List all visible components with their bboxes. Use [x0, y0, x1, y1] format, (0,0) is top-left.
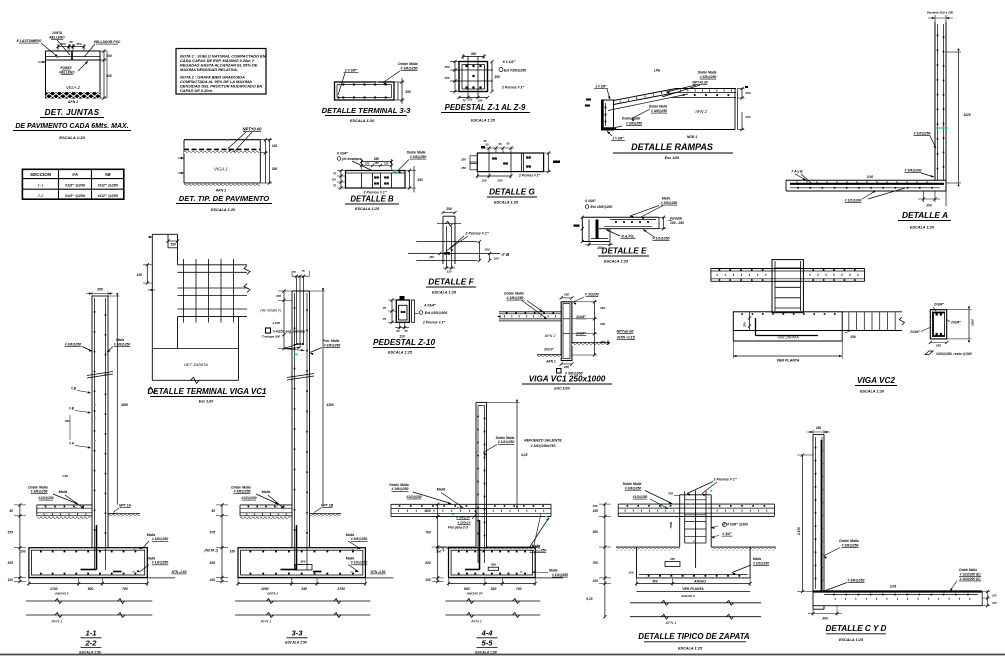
svg-text:NPT 1A: NPT 1A [119, 503, 132, 507]
detail DET. JUNTAS: top small dimensions [56, 40, 85, 51]
svg-text:Malla: Malla [147, 533, 156, 537]
rampas: top slab band [671, 89, 736, 98]
svg-text:Doble Malla: Doble Malla [389, 483, 409, 487]
pedestal Z-1: top dimension 350 [461, 52, 485, 59]
section 1-1: wall break mark [87, 372, 113, 379]
viga VC2: crossing beam [711, 269, 865, 282]
svg-text:DET. JUNTAS: DET. JUNTAS [45, 108, 100, 117]
detalle E: top-left bar texts [584, 199, 612, 209]
svg-text:750: 750 [668, 491, 673, 495]
svg-text:250: 250 [467, 98, 473, 102]
svg-text:# 1/2@250: # 1/2@250 [152, 561, 169, 565]
svg-text:100: 100 [593, 579, 599, 583]
svg-text:Malla: Malla [753, 557, 761, 561]
detalle A: bottom mesh leader [844, 188, 905, 203]
viga VC2: title [855, 376, 897, 394]
svg-text:700: 700 [425, 530, 431, 534]
svg-text:150: 150 [365, 162, 370, 166]
svg-text:# 3/4″: # 3/4″ [722, 532, 732, 536]
svg-text:250: 250 [669, 557, 675, 561]
svg-text:150: 150 [592, 504, 597, 508]
svg-text:NTN -2.50: NTN -2.50 [371, 570, 386, 574]
svg-text:AFN 2: AFN 2 [694, 109, 708, 114]
viga VC2 section: bottom dim and legend [925, 341, 972, 356]
rampas: body labels [687, 109, 708, 139]
viga VC1: bottom dim and legend [557, 362, 583, 375]
section 1-1: right height dimension 4300 [108, 293, 128, 504]
svg-text:250: 250 [563, 365, 569, 369]
svg-text:300: 300 [593, 530, 599, 534]
svg-text:4 #3/4″: 4 #3/4″ [584, 199, 596, 203]
svg-text:1,50: 1,50 [62, 474, 68, 478]
svg-text:AFN 1: AFN 1 [215, 189, 226, 193]
svg-text:200: 200 [925, 204, 932, 208]
svg-text:150: 150 [461, 158, 466, 162]
detalle E: bottom leader NAPE [606, 230, 636, 239]
section 1-1: wall stem [92, 296, 108, 548]
svg-text:100: 100 [210, 578, 216, 582]
svg-text:NTN -0.15: NTN -0.15 [617, 336, 635, 340]
svg-text:Malla: Malla [262, 490, 271, 494]
section 4-4: left slab leaders [389, 483, 463, 508]
svg-text:DETALLE C Y D: DETALLE C Y D [826, 624, 887, 633]
svg-text:250: 250 [445, 207, 452, 211]
svg-text:RELLENO: RELLENO [59, 71, 75, 75]
svg-text:SELLADOR PVC: SELLADOR PVC [94, 40, 121, 44]
detalle F: left small label [429, 252, 442, 259]
rampas: ramp slab slants [608, 89, 688, 111]
svg-text:4300: 4300 [120, 403, 128, 407]
section 4-4: ground stipple [436, 547, 540, 554]
rampas: mid mesh leader [631, 105, 667, 122]
svg-text:AFN 2: AFN 2 [544, 334, 557, 338]
section 4-4: projecting reinforcement note [524, 438, 562, 448]
detalle C y D: wall mesh leader [824, 539, 859, 559]
detalle C y D: top dimension 250 [807, 426, 830, 435]
svg-text:75: 75 [333, 184, 336, 188]
viga VC1: top dimension [560, 293, 574, 300]
detalle G: right dimension [544, 151, 560, 173]
svg-text:#1/2@250: #1/2@250 [406, 495, 421, 499]
svg-text:Doble Malla: Doble Malla [698, 71, 717, 75]
rampas: bottom-left bar leader [607, 131, 625, 141]
svg-text:250: 250 [443, 76, 449, 80]
section 1-1: wall bars into footing [81, 525, 122, 572]
svg-text:70: 70 [462, 99, 466, 103]
svg-text:250: 250 [96, 288, 103, 292]
viga VC1: NPT level labels [607, 330, 636, 346]
svg-text:50: 50 [498, 142, 502, 146]
detail DET. JUNTAS: body labels [66, 85, 81, 104]
svg-text:# 3/8@250: # 3/8@250 [651, 109, 667, 113]
svg-text:PEDESTAL Z-1 AL Z-9: PEDESTAL Z-1 AL Z-9 [445, 103, 526, 112]
section 1-1: right floor line NPT [108, 503, 140, 517]
svg-text:5,20: 5,20 [586, 597, 592, 601]
svg-text:JUNTA: JUNTA [52, 31, 63, 35]
section 3-3: pavement slab left [240, 505, 292, 520]
detalle A: title [898, 210, 951, 230]
svg-text:Traslape 300: Traslape 300 [262, 335, 280, 339]
viga VC2: footing [733, 312, 842, 341]
svg-text:6 # 1/2″: 6 # 1/2″ [503, 60, 516, 64]
zapata tipica: crossing slab [618, 504, 774, 516]
svg-text:ESCALA 1:20: ESCALA 1:20 [350, 119, 375, 123]
svg-text:# 3/8@250: # 3/8@250 [152, 537, 169, 541]
svg-text:ESCALA 1:25: ESCALA 1:25 [355, 207, 380, 211]
section 1-1: pavement mesh leaders [28, 485, 84, 509]
svg-text:150: 150 [384, 162, 389, 166]
svg-text:RELLENO: RELLENO [49, 36, 65, 40]
svg-text:# 3/4@14: # 3/4@14 [456, 515, 470, 519]
section 3-3: footing [238, 548, 365, 578]
svg-text:2,970: 2,970 [797, 527, 801, 536]
detalle B: beam outline [346, 171, 406, 189]
svg-text:675: 675 [8, 530, 14, 534]
svg-text:AFN 1: AFN 1 [260, 620, 272, 624]
detalle C y D: title [826, 624, 887, 642]
svg-text:ESCALA 1:20: ESCALA 1:20 [910, 226, 935, 230]
svg-text:500: 500 [491, 563, 496, 567]
detail DET. JUNTAS: pavement joint section box [46, 51, 101, 98]
notes block: paragraph 1 [180, 54, 266, 73]
svg-text:110: 110 [332, 178, 337, 182]
svg-text:100: 100 [230, 550, 236, 554]
terminal viga VC1: legend symbol [266, 328, 306, 334]
rampas: left curb block [602, 100, 614, 130]
svg-text:50: 50 [9, 509, 13, 513]
svg-text:4300: 4300 [326, 403, 334, 407]
viga VC1: left labels [543, 334, 556, 364]
terminal viga VC1: beam rebar grid [178, 259, 251, 323]
detalle A: corner bar leader [904, 169, 934, 178]
svg-text:75: 75 [333, 172, 336, 176]
svg-text:100: 100 [20, 550, 26, 554]
svg-text:4 #3/4″: 4 #3/4″ [423, 304, 436, 308]
svg-text:2 Pernos # 1″: 2 Pernos # 1″ [713, 477, 737, 481]
svg-text:2#3/4″: 2#3/4″ [575, 315, 586, 319]
detalle A: right height dimension [946, 49, 971, 186]
svg-text:2 # 3/8″: 2 # 3/8″ [344, 69, 358, 73]
table SECCION: row 1-1 [38, 182, 119, 187]
svg-text:VER PLANTA: VER PLANTA [777, 359, 800, 363]
svg-text:Est #3/8@200: Est #3/8@200 [591, 205, 613, 209]
detalle A: floor slab [786, 180, 946, 191]
viga VC1: beam section outline [561, 302, 572, 361]
svg-text:350: 350 [600, 306, 605, 310]
svg-text:50: 50 [396, 329, 400, 333]
svg-text:100: 100 [8, 578, 14, 582]
svg-text:#1/2″ @250: #1/2″ @250 [98, 194, 119, 198]
zapata tipica: soil improvement lines [630, 600, 761, 625]
zapata tipica: pedestal dims [668, 491, 680, 528]
svg-text:Prol. Malla: Prol. Malla [323, 339, 340, 343]
section 3-3: wall bars into footing [281, 525, 322, 572]
svg-text:300: 300 [425, 509, 431, 513]
svg-text:150: 150 [276, 294, 281, 298]
svg-text:1750: 1750 [337, 587, 345, 591]
pavimento tipico: stipple bands [184, 151, 260, 186]
viga VC2: column ladder [772, 260, 803, 313]
section 4-4: crossing slab [391, 504, 551, 516]
svg-text:2 Pernos # 1″: 2 Pernos # 1″ [422, 321, 446, 325]
svg-text:250: 250 [563, 293, 569, 297]
svg-text:700: 700 [122, 587, 128, 591]
pedestal Z-1: left dimensions [443, 60, 459, 93]
svg-text:#1/2″ @200: #1/2″ @200 [65, 183, 86, 187]
svg-text:ANCHO: ANCHO [693, 579, 706, 583]
svg-text:ESCALA 1:20: ESCALA 1:20 [59, 135, 85, 140]
detalle F: top dimension [441, 207, 456, 214]
svg-text:Doble Malla: Doble Malla [504, 292, 524, 296]
svg-text:# 3/8@250: # 3/8@250 [391, 487, 408, 491]
svg-text:Malla: Malla [346, 533, 355, 537]
svg-text:250: 250 [300, 587, 307, 591]
pavimento tipico: slab outline [184, 140, 260, 183]
svg-text:Esc 1/20: Esc 1/20 [665, 156, 679, 160]
svg-text:NPT+0.00: NPT+0.00 [243, 127, 263, 132]
sheet border line bottom [0, 654, 1005, 656]
section 3-3: wall break mark [287, 374, 314, 381]
svg-text:300: 300 [822, 616, 828, 620]
svg-text:6 #3/4″: 6 #3/4″ [337, 152, 348, 156]
pedestal Z-1: square outline with rebar grid [453, 56, 493, 98]
svg-text:DETALLE TERMINAL VIGA VC1: DETALLE TERMINAL VIGA VC1 [148, 387, 268, 396]
svg-text:550: 550 [374, 157, 380, 161]
svg-text:100: 100 [436, 550, 441, 554]
section 3-3: right footing mesh leaders [346, 533, 368, 573]
section 4-4: below-slab callouts [448, 510, 477, 530]
svg-text:50: 50 [485, 143, 489, 147]
svg-text:ESCALA 1:25: ESCALA 1:25 [839, 638, 864, 642]
pedestal Z-1: bottom dimensions [457, 96, 489, 103]
svg-text:1,075: 1,075 [272, 321, 280, 325]
detalle F: vertical member [437, 216, 461, 268]
svg-text:DETALLE B: DETALLE B [350, 195, 394, 204]
section 1-1: left dimension chain [8, 503, 26, 583]
detail TERMINAL 3-3: beam outline [335, 82, 395, 100]
svg-text:NPT 1B: NPT 1B [321, 503, 334, 507]
svg-text:#1/2@250: #1/2@250 [38, 496, 53, 500]
svg-text:150: 150 [429, 255, 434, 259]
svg-text:250: 250 [477, 99, 483, 103]
detail DET. JUNTAS: right dimension [38, 49, 112, 99]
svg-text:Variable 200 a 250: Variable 200 a 250 [927, 11, 954, 15]
rampas: lower-left mesh leader [613, 117, 642, 130]
svg-text:Doble Malla: Doble Malla [649, 105, 667, 109]
svg-text:#1/2″ @200: #1/2″ @200 [65, 194, 86, 198]
svg-text:# 3/4@200: # 3/4@200 [904, 169, 921, 173]
svg-text:Est #3/8@300: Est #3/8@300 [425, 311, 448, 315]
svg-text:VIGA 1: VIGA 1 [214, 167, 229, 172]
svg-text:350: 350 [417, 178, 423, 182]
svg-text:100: 100 [425, 578, 431, 582]
svg-text:# B: # B [71, 387, 77, 391]
svg-text:2#3/4″: 2#3/4″ [909, 330, 920, 334]
section 1-1: upper mesh leaders [65, 338, 131, 352]
svg-text:ESC 1/20: ESC 1/20 [554, 387, 569, 391]
section 3-3: wall stem [292, 291, 310, 548]
svg-text:DET ZAPATA: DET ZAPATA [184, 362, 208, 367]
detalle G: left stub dimensions [461, 156, 477, 170]
section 3-3: right floor line NPT [310, 503, 342, 517]
detalle C y D: right end cap dims [982, 590, 997, 607]
svg-text:300: 300 [485, 248, 490, 252]
svg-text:# 3/8@250: # 3/8@250 [114, 342, 131, 346]
zapata tipica: ground lines and stipple [616, 547, 776, 550]
detail TERMINAL 3-3: right mesh leader [376, 62, 418, 85]
svg-text:200: 200 [744, 91, 750, 95]
detail TERMINAL 3-3: left bar leader [338, 69, 359, 99]
svg-text:5-5: 5-5 [482, 638, 494, 647]
svg-text:# 1/2@250 (D): # 1/2@250 (D) [960, 572, 981, 576]
svg-text:50: 50 [211, 509, 215, 513]
detalle B: left dimensions [332, 169, 346, 190]
svg-text:150: 150 [170, 243, 176, 247]
rampas: right dimension brackets [738, 86, 751, 131]
detalle C y D: span dimension [890, 584, 897, 588]
svg-text:350: 350 [494, 75, 500, 79]
pavimento tipico: rebar dashed line [184, 148, 260, 150]
detalle F: bolt leader [446, 232, 489, 255]
viga VC2 section: side labels [909, 319, 961, 334]
detalle F: slab lines [408, 242, 510, 261]
detalle B: top dimensions [360, 157, 393, 171]
svg-text:# 3/8@250: # 3/8@250 [30, 490, 47, 494]
svg-text:500: 500 [652, 579, 658, 583]
rampas: top leader texts [654, 69, 717, 98]
svg-text:400: 400 [105, 74, 112, 78]
svg-text:POREX: POREX [60, 66, 72, 70]
svg-text:2#3.0″: 2#3.0″ [543, 348, 554, 352]
pavimento tipico: title [176, 194, 272, 212]
svg-text:2#3/4″: 2#3/4″ [575, 332, 586, 336]
svg-text:DET. TIP. DE PAVIMENTO: DET. TIP. DE PAVIMENTO [179, 194, 270, 203]
section 3-3: right height dimension [310, 288, 334, 504]
terminal viga VC1: left dimension 100 [137, 263, 155, 292]
svg-text:# 3/8@250: # 3/8@250 [661, 201, 678, 205]
svg-text:# 3/8@250: # 3/8@250 [233, 490, 250, 494]
svg-text:ESCALA 1:20: ESCALA 1:20 [860, 390, 885, 394]
svg-text:DETALLE G: DETALLE G [489, 188, 535, 197]
svg-text:3,08: 3,08 [890, 584, 897, 588]
detalle B: right dimension [405, 166, 423, 193]
detail DET. JUNTAS: title [13, 108, 131, 140]
terminal viga VC1: lower zapata box [148, 317, 239, 393]
svg-text:DETALLE E: DETALLE E [602, 247, 647, 256]
svg-text:300: 300 [600, 322, 605, 326]
svg-text:1700: 1700 [50, 587, 58, 591]
detalle G: title [487, 188, 537, 205]
svg-text:250: 250 [815, 426, 822, 430]
svg-text:# 3/8@250: # 3/8@250 [351, 537, 368, 541]
detalle A: span dimension text [867, 175, 874, 179]
detalle B: left bar text [337, 152, 372, 171]
svg-text:700: 700 [516, 587, 522, 591]
svg-text:Doble Malla: Doble Malla [959, 568, 977, 572]
svg-text:NOTA 2: NOTA 2 [267, 591, 278, 595]
svg-text:1025: 1025 [964, 113, 971, 117]
section 3-3: footing corner label 100 [230, 550, 236, 554]
detalle E: bottom-right bar leader [643, 230, 670, 241]
viga VC1: ground stipple [537, 343, 610, 358]
svg-text:100: 100 [628, 571, 633, 575]
svg-text:4-4: 4-4 [481, 629, 494, 638]
zapata tipica: strip dims below footing [635, 578, 752, 598]
svg-text:1000: 1000 [971, 319, 975, 326]
section 1-1: left bar callouts [62, 387, 96, 479]
pedestal Z-10: bottom dimensions [395, 322, 409, 338]
notes block: paragraph 2 [180, 75, 262, 94]
svg-text:#1/2@250: #1/2@250 [633, 495, 648, 499]
viga VC1: right dimension chain [572, 300, 606, 356]
svg-text:150: 150 [850, 335, 856, 339]
section 1-1: footing corner label 100 [20, 550, 26, 554]
svg-text:AFN 1: AFN 1 [51, 620, 63, 624]
svg-text:# A y B: # A y B [791, 170, 803, 174]
svg-text:300: 300 [272, 167, 278, 171]
svg-text:(Ver detalle F): (Ver detalle F) [260, 309, 281, 313]
svg-text:ESCALA 1:25: ESCALA 1:25 [604, 260, 629, 264]
svg-text:VER PLANTA: VER PLANTA [682, 587, 704, 591]
section 4-4: right footing mesh leader [520, 569, 568, 578]
svg-text:1-1: 1-1 [86, 629, 97, 638]
terminal viga VC1: column outline [152, 234, 177, 380]
svg-text:50: 50 [506, 142, 510, 146]
svg-text:(NOTA 1): (NOTA 1) [205, 549, 218, 553]
svg-text:625: 625 [210, 561, 216, 565]
detalle G: bottom dimensions [476, 172, 541, 183]
svg-text:DETALLE F: DETALLE F [428, 277, 474, 287]
viga VC1: title [522, 375, 612, 391]
detalle C y D: vertical wall [813, 435, 824, 610]
svg-text:AFN 1: AFN 1 [665, 621, 677, 625]
svg-text:100: 100 [106, 54, 112, 58]
svg-text:# 3/8@250: # 3/8@250 [841, 543, 858, 547]
svg-text:AFN 1: AFN 1 [545, 360, 556, 364]
svg-text:Malla: Malla [549, 569, 558, 573]
zapata tipica: anchor bolts leader [687, 477, 737, 496]
section 4-4: left dimension chain [425, 503, 443, 583]
pavimento tipico: labels [214, 167, 229, 193]
detalle B: mesh leader [394, 151, 427, 174]
svg-text:150: 150 [992, 594, 997, 598]
svg-text:MAXIMA DENSIDAD RELATIVA.: MAXIMA DENSIDAD RELATIVA. [180, 67, 238, 72]
svg-text:150: 150 [461, 166, 466, 170]
viga VC1: interior bar labels [575, 315, 586, 336]
svg-text:#1/2@250: #1/2@250 [241, 496, 256, 500]
section 4-4: inner bar box 500 [488, 563, 498, 571]
svg-text:Doble Malla: Doble Malla [622, 117, 640, 121]
table SECCION: row 2-2 [37, 193, 119, 198]
section 1-1: wall top dimension 250 [86, 288, 113, 297]
svg-text:Variable: Variable [670, 217, 683, 221]
svg-text:1050: 1050 [261, 587, 269, 591]
detalle G: beam outline [477, 153, 543, 172]
table SECCION: grid [22, 169, 123, 199]
svg-text:2-2: 2-2 [85, 638, 98, 647]
svg-text:2 Pernos # 1″: 2 Pernos # 1″ [518, 174, 540, 178]
rampas: body outline [614, 89, 738, 130]
svg-text:520: 520 [491, 587, 497, 591]
svg-text:CAPAS DE 0.20m.: CAPAS DE 0.20m. [180, 88, 213, 93]
svg-text:2#3/4″: 2#3/4″ [933, 303, 944, 307]
pavimento tipico: right dimensions [178, 138, 277, 185]
svg-text:# 3/8@250: # 3/8@250 [700, 75, 717, 79]
detalle B: bottom text [363, 191, 387, 195]
detalle F: title [426, 277, 476, 295]
pedestal Z-10: outline [396, 296, 414, 322]
section 1-1: right footing mesh leaders [132, 533, 168, 573]
